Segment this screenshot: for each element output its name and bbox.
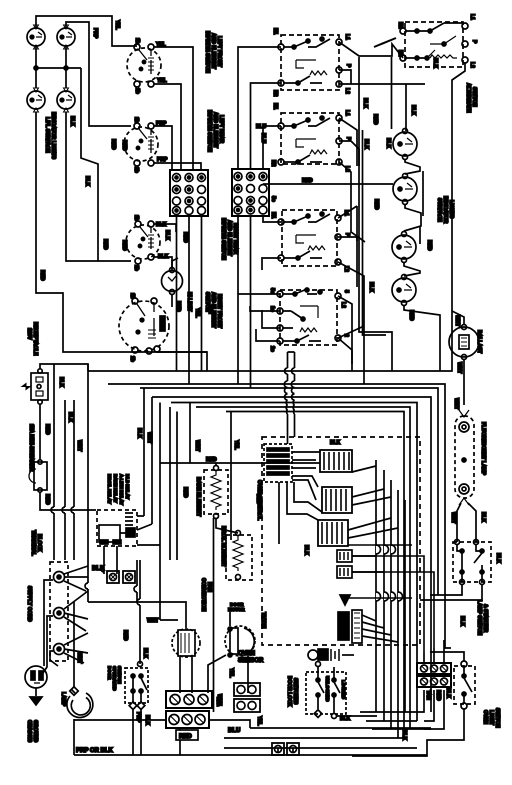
svg-text:5: 5 [343,290,349,293]
svg-text:RED: RED [122,630,128,641]
infinite switch right front [119,293,169,362]
label BLK ols [401,730,407,741]
svg-text:RED: RED [302,178,313,184]
label convection fan [200,578,212,612]
wire fan top [88,545,186,628]
relay K3 [318,520,348,546]
svg-text:SUPPLY CORD: SUPPLY CORD [26,586,32,622]
wire lamp switch out [420,585,482,600]
wire fluor bottom [457,503,476,542]
label YEL ys2 [256,716,262,726]
svg-text:LIGHT: LIGHT [488,710,494,725]
svg-text:INDICATOR: INDICATOR [442,196,448,224]
wire breaker down [40,492,96,510]
svg-text:L1: L1 [469,14,475,20]
label PRP ds [135,712,141,723]
svg-text:& STARTER: & STARTER [482,604,488,633]
label broil element [220,526,226,567]
labels alternate switch [397,14,477,113]
surface switch box 4 [269,288,341,352]
label BLU bb [228,728,240,734]
svg-text:OVEN: OVEN [482,710,488,725]
svg-text:WHT: WHT [194,440,200,451]
label BLK lv [67,412,73,423]
svg-text:SWITCH: SWITCH [117,666,122,684]
svg-text:WHT: WHT [76,440,82,451]
svg-text:WHT: WHT [453,398,459,409]
wire blockA down 3 [201,216,203,371]
svg-text:LEFT FRONT: LEFT FRONT [216,36,222,67]
bus B6 [196,407,410,729]
svg-text:5o: 5o [269,288,275,294]
label TAN blockA [207,304,213,314]
label YEL sw1 top [156,42,166,48]
svg-text:BLK: BLK [330,440,341,446]
svg-text:RED: RED [110,139,116,150]
oven sensor [308,649,354,661]
label fluorescent [453,398,486,476]
svg-text:BLK: BLK [495,553,501,564]
svg-text:H2: H2 [272,90,278,97]
label WHT fl [450,512,456,523]
center strip row1 [166,691,212,708]
terminal block spokes [64,566,88,663]
svg-text:BLK: BLK [67,412,73,423]
label 15A mini-breaker [28,424,34,472]
svg-text:FLUORESCENT LAMP: FLUORESCENT LAMP [480,422,486,476]
svg-text:BLK: BLK [480,512,486,523]
wire wht vertical [190,403,231,541]
svg-text:BROIL RELAY: BROIL RELAY [107,474,112,504]
wire mid long vertical 2 [363,130,387,335]
svg-text:BLU: BLU [256,124,267,130]
svg-text:L1: L1 [344,34,350,40]
label WHT lamp [76,652,82,663]
bottom bus 3 links [209,720,293,753]
120V receptacle [22,369,48,404]
bottom bus 2 [165,720,431,748]
svg-text:2b: 2b [129,356,135,362]
svg-text:15A MINI-BREAKER: 15A MINI-BREAKER [28,424,34,472]
wire blk drop doorsw [137,560,140,664]
svg-text:PRP: PRP [135,712,141,723]
wire ballast bottom [463,360,465,405]
label switch right front [204,292,222,328]
label BLK k3 [303,545,309,556]
wire P box2 [339,141,359,166]
label BLK dl [340,716,351,722]
bus B4 [152,397,431,712]
label BLK r4 [385,138,391,149]
wire lamp up [73,602,75,688]
label YEL rb [233,440,239,450]
svg-text:BLK: BLK [84,176,90,187]
wire left drop 2 [66,112,131,261]
svg-text:RED: RED [373,199,379,210]
label H2 boxfeed [272,90,278,97]
svg-text:BAKE ELEMENT: BAKE ELEMENT [195,477,201,516]
svg-text:LAMP SWITCH: LAMP SWITCH [476,600,482,636]
label H1 box3 [270,212,276,219]
label 120V receptacle [26,322,38,356]
label surface ind lights right [436,196,454,224]
terminal block A [170,170,208,216]
svg-text:L2: L2 [469,62,475,68]
wire blockA down 2 [188,216,190,270]
label PRP [92,28,98,39]
wire strips R up [424,640,444,663]
wire blockA down 1 [176,216,178,262]
wire receptacle top [40,364,88,371]
surface light R2 [393,174,417,205]
svg-text:2b: 2b [133,167,139,173]
wire fan bottom [180,656,192,693]
bus B3 [140,388,438,595]
label BLK rc [58,377,64,388]
label YEL ys1 [228,668,234,678]
label oven sensor [238,651,264,664]
svg-text:AND ELEMENT: AND ELEMENT [210,33,216,69]
oven light switch [454,661,475,709]
svg-text:SWITCH: SWITCH [471,87,477,107]
small sq terminals bottom [272,743,299,755]
svg-text:YEL: YEL [228,668,234,678]
svg-text:H1: H1 [272,103,278,110]
power plug [25,666,47,688]
wire PRP feed [66,22,131,126]
indicator light L4 [57,88,75,112]
wire lights chain [404,159,440,371]
wire RED long [263,183,393,185]
label BLU feed [256,124,267,130]
label BLK r2 [410,105,416,116]
svg-text:FAN: FAN [206,582,212,592]
wire strips R down [404,690,444,729]
bus B7 [226,412,404,739]
label BLK mv [136,428,142,439]
wire L2 box3 [338,262,364,303]
svg-text:YEL: YEL [233,440,239,450]
label WHT dm [147,618,158,624]
svg-text:BROIL ELEMENT: BROIL ELEMENT [220,526,226,567]
svg-text:WHT: WHT [146,432,152,443]
svg-text:CONVECTION: CONVECTION [200,578,206,612]
svg-text:L/FL SURFACE: L/FL SURFACE [44,117,50,153]
svg-text:SURFACE: SURFACE [436,198,442,223]
wire blockA col down [177,262,190,384]
middle verticals [144,388,177,560]
alternate switch [400,22,468,67]
label BLK a [69,116,75,127]
label RED blockA [182,232,188,243]
wire bake top [216,463,238,533]
svg-text:RED: RED [179,734,192,740]
svg-text:1b: 1b [133,117,139,123]
svg-text:BLK: BLK [368,282,374,293]
svg-text:BAKE RELAY: BAKE RELAY [113,474,118,503]
relay box [97,510,137,546]
label PRP sw2 top [156,121,167,127]
label BLK sw3 bottom [158,254,169,260]
label H1a [215,697,221,706]
wire P box3 [338,237,357,287]
surface light R1 [393,129,417,160]
svg-text:BLK: BLK [156,222,167,228]
wire blockB down 1 [238,216,281,388]
terminal block main [50,562,68,661]
door lock out [314,709,336,719]
wire sw4 bottom [157,352,207,366]
svg-text:RED: RED [206,457,217,463]
label BLK k1 [330,440,341,446]
label RED boxed [176,730,198,740]
relay K2 [322,487,352,513]
wire branch x81 [81,68,98,261]
label BLK fl [480,512,486,523]
svg-text:BLK: BLK [136,428,142,439]
svg-text:RED: RED [39,270,45,281]
svg-text:RED: RED [408,310,414,321]
svg-text:BLU: BLU [260,133,266,144]
lamp diamond [70,687,78,695]
door motor [225,626,255,657]
label WHT mv [146,432,152,443]
label BLK sw3 top [156,222,167,228]
lamp switch and starter [453,540,491,585]
wire hop vertical 2 [291,352,294,437]
svg-text:LAMP: LAMP [60,692,66,707]
wire oven light sw bottom [352,709,464,756]
surface light R4 [392,275,416,306]
svg-text:BLK: BLK [69,116,75,127]
label BLK r1 [362,98,368,109]
wire L1 box1 to alt [339,42,403,58]
wire mid long vertical [359,57,392,371]
wire relay out bottom [104,546,117,560]
terminal strip R row1 [417,663,451,674]
bus B1 [88,311,452,371]
label surface indicator lights [44,112,56,160]
label BLK ds [144,715,150,726]
svg-text:H2: H2 [270,160,276,167]
svg-text:PRP: PRP [157,157,168,163]
svg-text:AND ELEMENT: AND ELEMENT [212,112,218,148]
wire ballast top [452,311,464,324]
wire L2 box2 [339,162,365,242]
svg-text:WHT: WHT [76,652,82,663]
label infinite switch right rear [220,218,238,260]
svg-text:BLK: BLK [432,58,438,69]
label door operated switch [107,666,122,691]
svg-text:DLB RELAY: DLB RELAY [125,474,130,499]
svg-text:2o: 2o [269,346,275,352]
clock display [264,444,292,482]
label RED mb2 [44,494,50,505]
svg-text:SENSOR: SENSOR [238,658,264,664]
label oven control [256,480,262,520]
svg-text:DOOR LOCK: DOOR LOCK [286,676,292,707]
wire sw4 bottom to bus [207,352,295,371]
svg-text:BLK: BLK [142,648,148,659]
label terminal block [30,530,42,556]
label BLK r3 [363,139,369,150]
svg-text:UNLOCKED: UNLOCKED [325,676,330,702]
surface switch box 1 [278,35,342,90]
label oven light switch [482,708,500,728]
svg-text:RED: RED [182,487,188,498]
svg-text:BLK: BLK [340,716,351,722]
left vertical buses [51,364,88,560]
label lamp switch starter [476,553,501,636]
svg-text:INDICATOR LIGHTS: INDICATOR LIGHTS [50,112,56,160]
bottom bus prp [74,754,427,756]
label WHT strip [216,694,222,705]
oven control box [262,437,420,645]
svg-text:OVEN CONTROL: OVEN CONTROL [256,480,262,520]
bake element [204,466,228,519]
svg-text:BALLAST: BALLAST [476,330,482,353]
label hi limit [175,292,192,312]
wire box4 left feeds [238,294,280,341]
surface switch box 2 [278,113,342,165]
hops left bottom [85,560,117,602]
door operated switch [125,662,148,704]
svg-text:OVEN: OVEN [238,651,255,657]
label prp or blk [76,748,114,754]
label RED b [102,239,108,250]
relay K1 [320,450,352,472]
bus B5 [171,403,417,722]
labels box4 right [340,290,349,337]
label RED r5 [373,199,379,210]
label infinite switch left rear [206,110,224,152]
surface light R3 [392,232,416,263]
svg-text:L2: L2 [340,302,346,308]
label door lock switches [286,676,298,707]
svg-text:BLK: BLK [363,139,369,150]
label RED redbus [206,457,217,463]
infinite switch left front [127,38,161,94]
wire alt switch L2 down [452,63,465,311]
buzzer [340,595,350,605]
svg-text:OPERATED: OPERATED [112,666,117,691]
svg-text:RED: RED [44,424,50,435]
svg-text:WHT: WHT [216,694,222,705]
wire dl link [337,715,377,717]
labels box1 right [344,34,351,94]
wire red bus [160,462,320,464]
wire receptacle to breaker [39,404,41,460]
wire P box1 right [339,70,351,84]
label YEL [114,20,120,30]
svg-text:1b: 1b [133,215,139,221]
svg-text:LIGHTS: LIGHTS [448,200,454,219]
label RED mb1 [44,424,50,435]
svg-text:BLK: BLK [92,566,105,572]
svg-text:120V: 120V [26,328,32,340]
relay small A [337,550,352,562]
svg-text:YEL: YEL [157,78,167,84]
svg-text:YEL: YEL [114,20,120,30]
label WHT rb [194,440,200,451]
svg-text:H1: H1 [270,212,276,219]
svg-text:BLOCK: BLOCK [36,534,42,552]
terminal strip R row2 [417,676,451,687]
wire strip2 down [179,728,181,755]
svg-text:TAN: TAN [207,304,213,314]
wires cord to plug [43,580,58,673]
svg-text:BLK: BLK [58,377,64,388]
svg-text:BLK: BLK [445,688,451,699]
svg-text:INFINITE SWITCH: INFINITE SWITCH [206,110,212,152]
wire sw3 out top [154,224,176,232]
svg-text:WHT: WHT [456,362,462,373]
svg-text:MOTOR: MOTOR [228,607,245,612]
door sw diamonds [129,702,145,710]
svg-text:LEFT REAR: LEFT REAR [218,115,224,143]
chassis ground [30,688,42,705]
svg-text:1b: 1b [129,293,135,299]
labels box3 right [343,210,350,272]
mini breaker [29,460,47,492]
svg-text:2b: 2b [133,265,139,271]
label BLU rb [255,494,261,505]
surface switch box 3 [278,210,341,266]
wire display to relays [279,452,322,544]
svg-text:TERMINAL: TERMINAL [30,530,36,556]
wire door motor [208,612,248,693]
svg-text:RED: RED [44,494,50,505]
svg-text:A-LINE RELAY: A-LINE RELAY [119,474,124,505]
wire crossing right [348,545,412,598]
oven lamp [67,689,93,717]
bundle speaker links [362,615,398,642]
svg-text:CHASSIS: CHASSIS [26,720,32,743]
label BLU feed2 [260,133,266,144]
yel strip boxes [234,683,260,712]
svg-text:RED: RED [102,239,108,250]
label RED r1 [372,114,378,125]
label infinite switch left front [204,31,222,73]
broil element [226,531,252,581]
label ballast [454,315,482,373]
bundle hops [376,545,403,601]
label RED r8 [408,310,414,321]
labels strip R [425,688,451,701]
svg-text:WHT: WHT [454,315,460,326]
wire right verticals [392,57,424,244]
svg-text:H1: H1 [272,28,278,35]
wire lamp bottom to bus [73,719,75,755]
label RED a [39,270,45,281]
wire sw1 out top [154,47,193,170]
svg-text:BLK: BLK [385,138,391,149]
wire relay to strips [352,556,434,652]
label door motor [228,602,245,612]
label H1 boxfeed [272,28,278,35]
small sq terminals mid [107,571,135,583]
label H1 boxfeed2 [272,103,278,110]
label RED dm [122,630,128,641]
label YEL sw1 bottom [157,78,167,84]
label YEL blockA [194,308,200,318]
bundle top links [348,466,398,572]
wire sw1 out bottom [154,84,181,170]
label RED long [302,178,313,184]
indicator light L1 [27,25,45,49]
svg-text:BLK: BLK [459,616,465,627]
svg-text:INFINITE SWITCH: INFINITE SWITCH [220,218,226,260]
